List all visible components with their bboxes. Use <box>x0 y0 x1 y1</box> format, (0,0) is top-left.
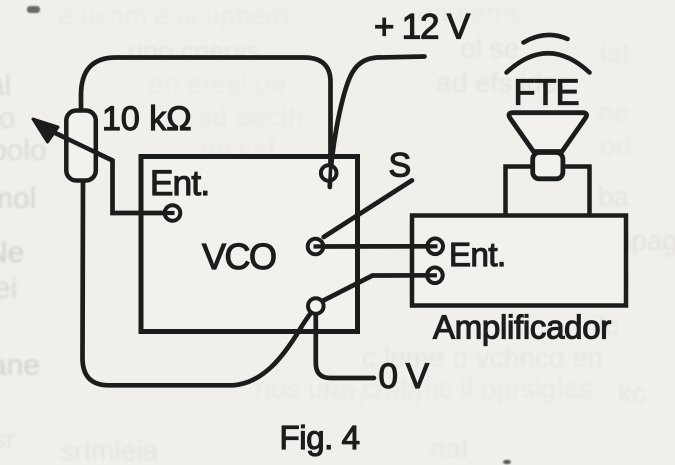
svg-text:Ent.: Ent. <box>150 164 209 203</box>
svg-text:srtmleia: srtmleia <box>60 435 158 465</box>
svg-text:nal: nal <box>430 433 467 464</box>
svg-text:ba: ba <box>598 181 630 212</box>
svg-text:sr: sr <box>0 423 15 454</box>
svg-text:Fig. 4: Fig. 4 <box>280 419 360 456</box>
svg-text:10 kΩ: 10 kΩ <box>102 100 192 138</box>
svg-text:mol: mol <box>0 182 36 215</box>
svg-text:ne: ne <box>598 97 629 128</box>
svg-text:al: al <box>0 69 11 102</box>
svg-text:Amplificador: Amplificador <box>433 309 611 346</box>
svg-text:0 V: 0 V <box>379 357 430 396</box>
svg-text:FTE: FTE <box>514 72 579 113</box>
svg-text:Ent.: Ent. <box>449 236 506 273</box>
svg-text:+ 12 V: + 12 V <box>374 8 471 47</box>
svg-text:sd aecth: sd aecth <box>198 101 304 132</box>
svg-text:lat: lat <box>600 37 630 68</box>
svg-text:e ucnm e ocupberh: e ucnm e ocupberh <box>58 1 289 31</box>
svg-text:S: S <box>389 147 412 185</box>
svg-text:an eteal ue: an eteal ue <box>148 68 287 99</box>
svg-text:rei: rei <box>0 272 17 305</box>
svg-text:kc: kc <box>618 377 646 408</box>
svg-text:od: od <box>600 130 631 161</box>
svg-text:VCO: VCO <box>202 236 276 277</box>
svg-text:bolo: bolo <box>0 134 47 167</box>
svg-text:io: io <box>0 102 15 135</box>
svg-text:ane: ane <box>0 349 40 382</box>
svg-text:uno cnervs: uno cnervs <box>128 36 260 66</box>
svg-text:Ne: Ne <box>0 236 24 269</box>
